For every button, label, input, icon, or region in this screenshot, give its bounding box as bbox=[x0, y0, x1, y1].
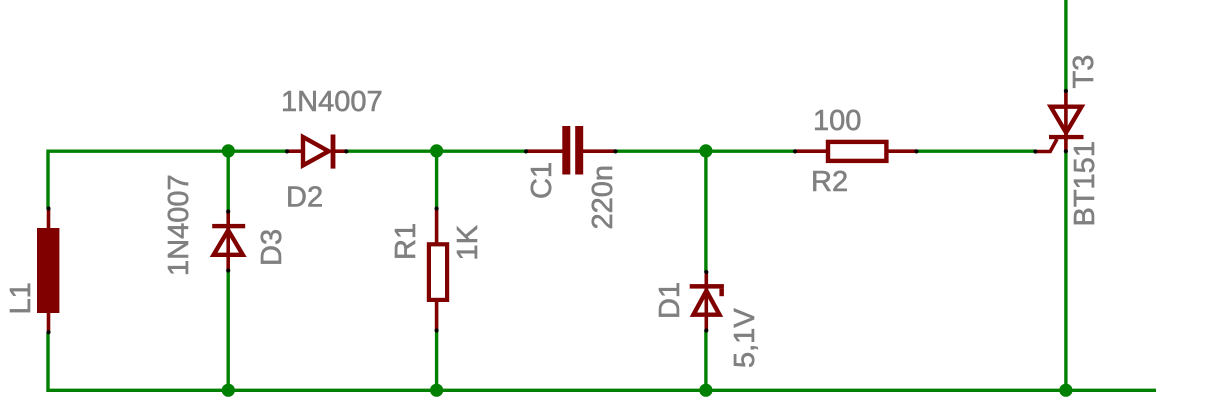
svg-text:1K: 1K bbox=[452, 224, 484, 260]
svg-text:D3: D3 bbox=[256, 229, 288, 266]
svg-text:100: 100 bbox=[813, 105, 861, 137]
svg-text:L1: L1 bbox=[5, 282, 37, 314]
svg-text:R1: R1 bbox=[390, 223, 422, 260]
svg-text:D1: D1 bbox=[654, 282, 686, 319]
svg-text:220n: 220n bbox=[587, 165, 619, 230]
svg-text:BT151: BT151 bbox=[1069, 141, 1101, 226]
svg-text:T3: T3 bbox=[1068, 55, 1100, 89]
svg-text:5,1V: 5,1V bbox=[729, 308, 761, 368]
svg-text:C1: C1 bbox=[526, 162, 558, 199]
svg-text:1N4007: 1N4007 bbox=[281, 86, 383, 118]
svg-text:1N4007: 1N4007 bbox=[163, 174, 195, 276]
svg-text:R2: R2 bbox=[811, 166, 848, 198]
svg-text:D2: D2 bbox=[286, 182, 323, 214]
